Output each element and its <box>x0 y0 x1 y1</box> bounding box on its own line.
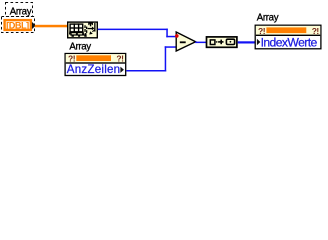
selection marquee around label of control Array <box>6 3 33 17</box>
function Subtract <box>176 32 195 51</box>
label "Array" of DBL array control <box>10 6 32 17</box>
label "Array" of IndexWerte terminal group <box>257 12 279 23</box>
wire orange DBL-array from terminal to Array Size <box>35 25 68 28</box>
wire blue I32 from Array Size to Subtract top input <box>98 29 176 38</box>
measure symbol inside Array Size <box>88 23 93 24</box>
svg-text:?!: ?! <box>312 26 320 36</box>
svg-text:Array: Array <box>257 12 279 23</box>
terminal [DBL] array control Array <box>5 20 36 30</box>
svg-text:Array: Array <box>69 41 91 52</box>
boxed dot glyph <box>226 39 234 44</box>
square glyph <box>210 40 215 45</box>
wire blue I32 from Subtract to Ramp node <box>195 42 207 44</box>
svg-text:Array: Array <box>10 6 32 17</box>
function Array Size U1 <box>68 22 98 38</box>
label "Array" of AnzZeilen terminal group <box>69 41 91 52</box>
wire blue I32 from AnzZeilen to Subtract bottom input <box>126 46 176 71</box>
grid symbol inside Array Size <box>70 24 83 32</box>
plus glyph <box>219 41 224 43</box>
selection marquee around terminal Array <box>2 17 35 33</box>
svg-text:[DBL]: [DBL] <box>6 20 29 30</box>
svg-text:?!: ?! <box>258 26 266 36</box>
svg-text:AnzZeilen: AnzZeilen <box>67 63 121 76</box>
wire blue I32-array from Ramp node to IndexWerte <box>238 41 256 43</box>
terminal icon IndexWerte indicator <box>255 25 321 49</box>
terminal icon AnzZeilen control <box>65 54 126 76</box>
coercion dot red on Subtract top input <box>175 34 179 38</box>
two dots <box>216 41 218 43</box>
function Ramp pattern node <box>207 37 237 47</box>
svg-text:IndexWerte: IndexWerte <box>261 36 318 50</box>
